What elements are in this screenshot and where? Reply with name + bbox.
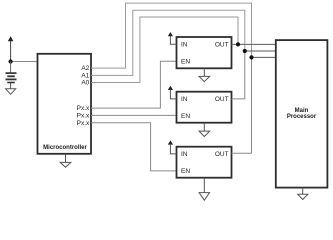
switch U2 box (177, 37, 232, 68)
svg-text:A0: A0 (81, 80, 89, 87)
VCC arrow U3 (168, 86, 177, 99)
power supply arrow VCC (8, 36, 14, 61)
wire A0 loop to node A (91, 17, 238, 83)
ground U2 (199, 68, 210, 81)
wire A2 loop to node C (91, 3, 252, 68)
wire OUT U3 riser to node B (232, 51, 245, 99)
battery BT1 (6, 62, 17, 83)
node A (236, 42, 240, 46)
svg-text:EN: EN (181, 113, 190, 120)
ground U4 (199, 178, 209, 200)
wire Px.x to EN of U2 (91, 61, 177, 108)
node B (243, 49, 247, 53)
wire Px.x to EN of U3 (91, 114, 177, 116)
wire Px.x to EN of U4 (91, 123, 177, 171)
svg-text:Px.x: Px.x (77, 105, 90, 112)
svg-text:Microcontroller: Microcontroller (43, 145, 87, 151)
wire A1 loop to node B (91, 10, 245, 75)
svg-text:IN: IN (181, 42, 188, 49)
switch U3 box (177, 92, 232, 123)
VCC arrow U2 (168, 32, 177, 44)
svg-text:EN: EN (181, 168, 190, 175)
microcontroller U1 box (38, 54, 92, 154)
svg-text:IN: IN (181, 96, 188, 103)
svg-text:OUT: OUT (215, 151, 229, 158)
svg-text:Px.x: Px.x (77, 113, 90, 120)
main processor U5 box (276, 40, 328, 188)
svg-text:Px.x: Px.x (77, 120, 90, 127)
wire VCC to microcontroller (11, 61, 38, 63)
ground U3 (199, 123, 210, 137)
wire node C to main processor (252, 56, 276, 58)
svg-text:OUT: OUT (215, 96, 229, 103)
wire OUT U4 riser to node C (232, 57, 252, 153)
svg-text:EN: EN (181, 58, 190, 65)
ground below battery (6, 83, 16, 94)
ground main processor (298, 188, 308, 200)
svg-text:IN: IN (181, 151, 188, 158)
switch U4 box (177, 147, 232, 178)
node C (249, 55, 253, 59)
svg-text:A2: A2 (81, 65, 89, 72)
svg-text:OUT: OUT (215, 42, 229, 49)
svg-text:A1: A1 (81, 73, 89, 80)
svg-text:Main: Main (295, 108, 309, 114)
svg-text:Processor: Processor (287, 114, 317, 120)
wire OUT U2 to main processor (232, 43, 276, 45)
node VCC junction (9, 59, 13, 63)
VCC arrow U4 (168, 140, 177, 154)
wire node B to main processor (245, 50, 276, 52)
ground microcontroller (60, 154, 71, 168)
